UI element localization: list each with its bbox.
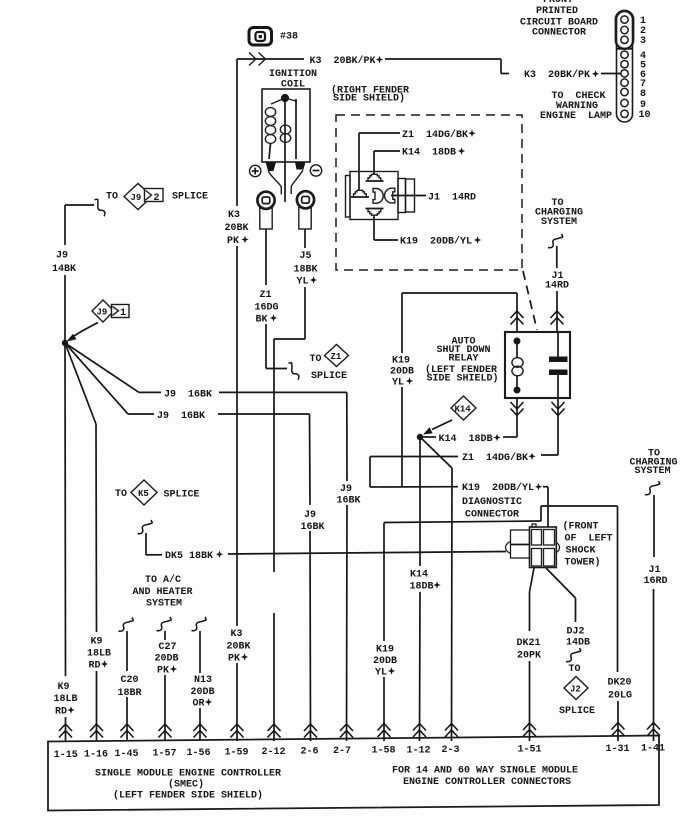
svg-text:14BK: 14BK — [52, 264, 76, 275]
svg-text:(FRONT: (FRONT — [563, 521, 599, 533]
svg-text:RD: RD — [55, 707, 67, 718]
svg-text:Z1 14DG/BK: Z1 14DG/BK — [462, 452, 528, 464]
svg-text:CONNECTOR: CONNECTOR — [465, 510, 519, 521]
svg-text:J9: J9 — [304, 510, 316, 521]
svg-text:Z1: Z1 — [260, 290, 272, 301]
svg-text:1-45: 1-45 — [115, 749, 139, 760]
svg-text:J9: J9 — [340, 484, 352, 495]
svg-text:K19: K19 — [392, 356, 410, 367]
svg-text:N13: N13 — [194, 675, 212, 686]
svg-text:K19: K19 — [376, 645, 394, 656]
svg-text:AND HEATER: AND HEATER — [133, 587, 193, 598]
svg-text:J9: J9 — [131, 193, 142, 203]
svg-text:SYSTEM: SYSTEM — [635, 466, 671, 477]
svg-text:2-12: 2-12 — [262, 747, 286, 758]
svg-text:DK20: DK20 — [608, 678, 632, 689]
svg-text:J9 16BK: J9 16BK — [164, 390, 212, 401]
svg-text:K14: K14 — [455, 405, 472, 415]
svg-text:J1: J1 — [649, 565, 661, 576]
svg-text:10: 10 — [639, 110, 651, 121]
svg-text:K3 20BK/PK: K3 20BK/PK — [310, 55, 376, 67]
svg-text:2-7: 2-7 — [333, 746, 351, 757]
svg-text:K9: K9 — [91, 637, 103, 648]
svg-text:20BK: 20BK — [225, 223, 249, 234]
svg-text:20DB: 20DB — [390, 367, 414, 378]
svg-text:1-12: 1-12 — [407, 746, 431, 757]
svg-text:K3: K3 — [231, 629, 243, 640]
svg-text:Z1: Z1 — [331, 352, 342, 362]
svg-text:K19 20DB/YL: K19 20DB/YL — [462, 482, 534, 494]
svg-text:DIAGNOSTIC: DIAGNOSTIC — [462, 497, 522, 508]
svg-text:C27: C27 — [159, 642, 177, 653]
svg-text:(SMEC): (SMEC) — [168, 779, 204, 791]
svg-text:RELAY: RELAY — [449, 354, 479, 365]
svg-text:YL: YL — [392, 378, 404, 389]
svg-text:14RD: 14RD — [545, 281, 569, 292]
svg-text:K5: K5 — [138, 489, 149, 499]
svg-text:TO: TO — [569, 664, 581, 675]
svg-text:2-6: 2-6 — [301, 747, 319, 758]
svg-text:COIL: COIL — [281, 80, 305, 91]
svg-text:1-57: 1-57 — [153, 749, 177, 760]
svg-text:PK: PK — [228, 654, 240, 665]
svg-text:1: 1 — [120, 308, 126, 319]
svg-text:DJ2: DJ2 — [567, 627, 585, 638]
svg-text:K14 18DB: K14 18DB — [402, 148, 456, 159]
svg-text:20DB: 20DB — [155, 654, 179, 665]
svg-text:FOR 14 AND 60 WAY SINGLE MODUL: FOR 14 AND 60 WAY SINGLE MODULE — [392, 766, 578, 777]
svg-text:ENGINE LAMP: ENGINE LAMP — [540, 111, 612, 122]
svg-text:J9: J9 — [56, 251, 68, 262]
svg-text:SYSTEM: SYSTEM — [146, 599, 182, 610]
svg-text:SINGLE MODULE ENGINE CONTROLLE: SINGLE MODULE ENGINE CONTROLLER — [95, 769, 281, 780]
svg-text:8: 8 — [640, 89, 646, 100]
svg-text:#38: #38 — [280, 32, 298, 43]
svg-text:1-58: 1-58 — [372, 746, 396, 757]
svg-text:1-59: 1-59 — [225, 748, 249, 759]
svg-text:2-3: 2-3 — [442, 745, 460, 756]
svg-text:J2: J2 — [570, 685, 581, 695]
svg-text:TO: TO — [115, 489, 127, 500]
svg-text:PK: PK — [157, 666, 169, 677]
svg-text:1-15: 1-15 — [54, 750, 78, 761]
svg-text:K14 18DB: K14 18DB — [439, 434, 493, 445]
svg-text:20BK: 20BK — [227, 642, 251, 653]
svg-text:RD: RD — [89, 661, 101, 672]
svg-text:18LB: 18LB — [54, 694, 78, 705]
svg-text:TO: TO — [106, 192, 118, 203]
svg-text:2: 2 — [154, 193, 160, 204]
svg-text:18LB: 18LB — [87, 649, 111, 660]
svg-text:SIDE SHIELD): SIDE SHIELD) — [427, 373, 499, 385]
svg-text:PRINTED: PRINTED — [536, 6, 578, 17]
svg-text:SPLICE: SPLICE — [311, 371, 347, 382]
svg-text:K3 20BK/PK: K3 20BK/PK — [524, 69, 590, 81]
svg-text:OR: OR — [193, 699, 205, 710]
svg-text:SIDE SHIELD): SIDE SHIELD) — [333, 93, 405, 105]
svg-text:DK21: DK21 — [517, 638, 541, 649]
svg-text:20LG: 20LG — [608, 691, 632, 702]
svg-text:1-41: 1-41 — [641, 744, 665, 755]
svg-text:SPLICE: SPLICE — [559, 706, 595, 717]
svg-text:DK5 18BK: DK5 18BK — [165, 551, 213, 562]
svg-text:TO A/C: TO A/C — [145, 574, 181, 586]
svg-text:J5: J5 — [300, 251, 312, 262]
svg-text:SHOCK: SHOCK — [566, 546, 596, 557]
svg-text:Z1 14DG/BK: Z1 14DG/BK — [402, 129, 468, 141]
svg-text:K3: K3 — [228, 210, 240, 221]
svg-text:16BK: 16BK — [301, 522, 325, 533]
svg-text:ENGINE CONTROLLER CONNECTORS: ENGINE CONTROLLER CONNECTORS — [403, 777, 571, 788]
svg-text:1-16: 1-16 — [84, 750, 108, 761]
svg-text:J9: J9 — [97, 308, 108, 318]
svg-text:PK: PK — [227, 236, 239, 247]
svg-text:20PK: 20PK — [517, 651, 541, 662]
svg-text:20DB: 20DB — [373, 656, 397, 667]
svg-text:OF LEFT: OF LEFT — [565, 534, 613, 545]
svg-text:J1 14RD: J1 14RD — [428, 193, 476, 204]
svg-text:TO: TO — [310, 354, 322, 365]
svg-text:K14: K14 — [410, 570, 428, 581]
svg-text:CONNECTOR: CONNECTOR — [532, 28, 586, 39]
svg-text:14DB: 14DB — [566, 638, 590, 649]
svg-text:20DB: 20DB — [191, 687, 215, 698]
svg-text:SPLICE: SPLICE — [172, 192, 208, 203]
svg-text:IGNITION: IGNITION — [269, 69, 317, 80]
svg-text:16RD: 16RD — [644, 576, 668, 587]
svg-text:YL: YL — [375, 668, 387, 679]
svg-text:SPLICE: SPLICE — [164, 490, 200, 501]
svg-text:C20: C20 — [121, 675, 139, 686]
svg-text:1-31: 1-31 — [606, 744, 630, 755]
svg-text:18BR: 18BR — [118, 688, 142, 699]
svg-text:16DG: 16DG — [255, 303, 279, 314]
svg-text:1-56: 1-56 — [187, 748, 211, 759]
svg-text:18BK: 18BK — [294, 265, 318, 276]
svg-text:YL: YL — [297, 277, 309, 288]
svg-text:J9 16BK: J9 16BK — [157, 411, 205, 422]
svg-text:K9: K9 — [58, 682, 70, 693]
svg-text:BK: BK — [256, 315, 268, 326]
svg-text:SYSTEM: SYSTEM — [541, 217, 577, 228]
svg-text:18DB: 18DB — [410, 582, 434, 593]
svg-text:K19 20DB/YL: K19 20DB/YL — [400, 236, 472, 248]
svg-text:TOWER): TOWER) — [565, 557, 601, 569]
svg-text:1-51: 1-51 — [518, 745, 542, 756]
svg-text:16BK: 16BK — [337, 496, 361, 507]
svg-text:3: 3 — [640, 36, 646, 47]
svg-text:(LEFT FENDER SIDE SHIELD): (LEFT FENDER SIDE SHIELD) — [113, 790, 263, 802]
